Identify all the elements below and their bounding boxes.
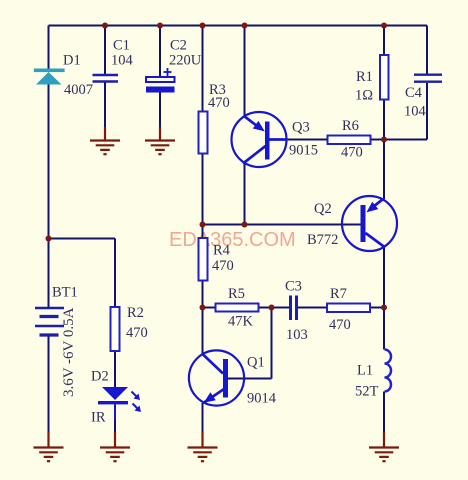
svg-text:D1: D1 xyxy=(63,53,81,69)
svg-text:Q1: Q1 xyxy=(247,355,265,371)
svg-text:47K: 47K xyxy=(228,314,254,330)
svg-text:B772: B772 xyxy=(307,232,338,248)
svg-text:3.6V -6V 0.5A: 3.6V -6V 0.5A xyxy=(61,307,77,397)
svg-text:104: 104 xyxy=(404,104,427,120)
svg-text:103: 103 xyxy=(286,327,308,343)
svg-text:9015: 9015 xyxy=(289,143,318,159)
svg-text:R4: R4 xyxy=(213,243,231,259)
svg-text:C2: C2 xyxy=(170,38,187,54)
svg-text:1Ω: 1Ω xyxy=(355,88,373,104)
svg-text:470: 470 xyxy=(208,95,230,111)
svg-text:IR: IR xyxy=(91,410,106,426)
svg-text:9014: 9014 xyxy=(247,391,277,407)
svg-text:R7: R7 xyxy=(330,286,347,302)
svg-text:D2: D2 xyxy=(91,369,109,385)
svg-text:C4: C4 xyxy=(405,85,423,101)
svg-text:470: 470 xyxy=(329,317,351,333)
svg-text:R6: R6 xyxy=(342,118,359,134)
svg-text:R5: R5 xyxy=(228,286,245,302)
svg-text:BT1: BT1 xyxy=(52,285,78,301)
svg-text:Q2: Q2 xyxy=(314,201,332,217)
svg-text:L1: L1 xyxy=(357,363,373,379)
svg-text:470: 470 xyxy=(212,258,234,274)
svg-text:EDA365.COM: EDA365.COM xyxy=(169,229,296,251)
svg-text:C1: C1 xyxy=(113,38,130,54)
svg-text:4007: 4007 xyxy=(64,82,93,98)
svg-text:R1: R1 xyxy=(356,69,373,85)
svg-text:Q3: Q3 xyxy=(292,120,310,136)
svg-text:52T: 52T xyxy=(355,384,379,400)
svg-text:470: 470 xyxy=(126,325,148,341)
svg-text:104: 104 xyxy=(111,53,134,69)
svg-text:220U: 220U xyxy=(169,53,202,69)
svg-text:C3: C3 xyxy=(285,279,302,295)
svg-text:R2: R2 xyxy=(127,305,144,321)
svg-text:470: 470 xyxy=(341,145,363,161)
